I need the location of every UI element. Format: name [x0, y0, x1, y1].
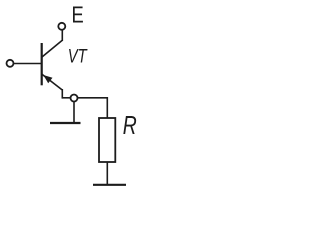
wire node to ground	[73, 102, 75, 123]
wire resistor to ground	[106, 162, 108, 185]
terminal (base input)	[7, 60, 14, 67]
wire emitter vertical	[61, 89, 63, 99]
svg-text:E: E	[72, 3, 84, 29]
terminal E	[58, 23, 65, 30]
svg-text:R: R	[123, 111, 137, 139]
transistor VT base bar	[41, 43, 43, 85]
svg-text:VT: VT	[68, 46, 88, 67]
wire to node	[62, 97, 70, 99]
ground left	[50, 122, 81, 124]
wire base lead	[14, 63, 42, 65]
ground bottom	[93, 184, 126, 186]
wire emitter diagonal	[42, 74, 62, 90]
emitter arrowhead of VT	[43, 75, 52, 83]
resistor R	[99, 118, 115, 162]
node junction	[71, 95, 78, 102]
wire node to resistor	[78, 98, 108, 118]
wire collector vertical	[61, 30, 63, 41]
wire collector diagonal	[42, 40, 62, 57]
